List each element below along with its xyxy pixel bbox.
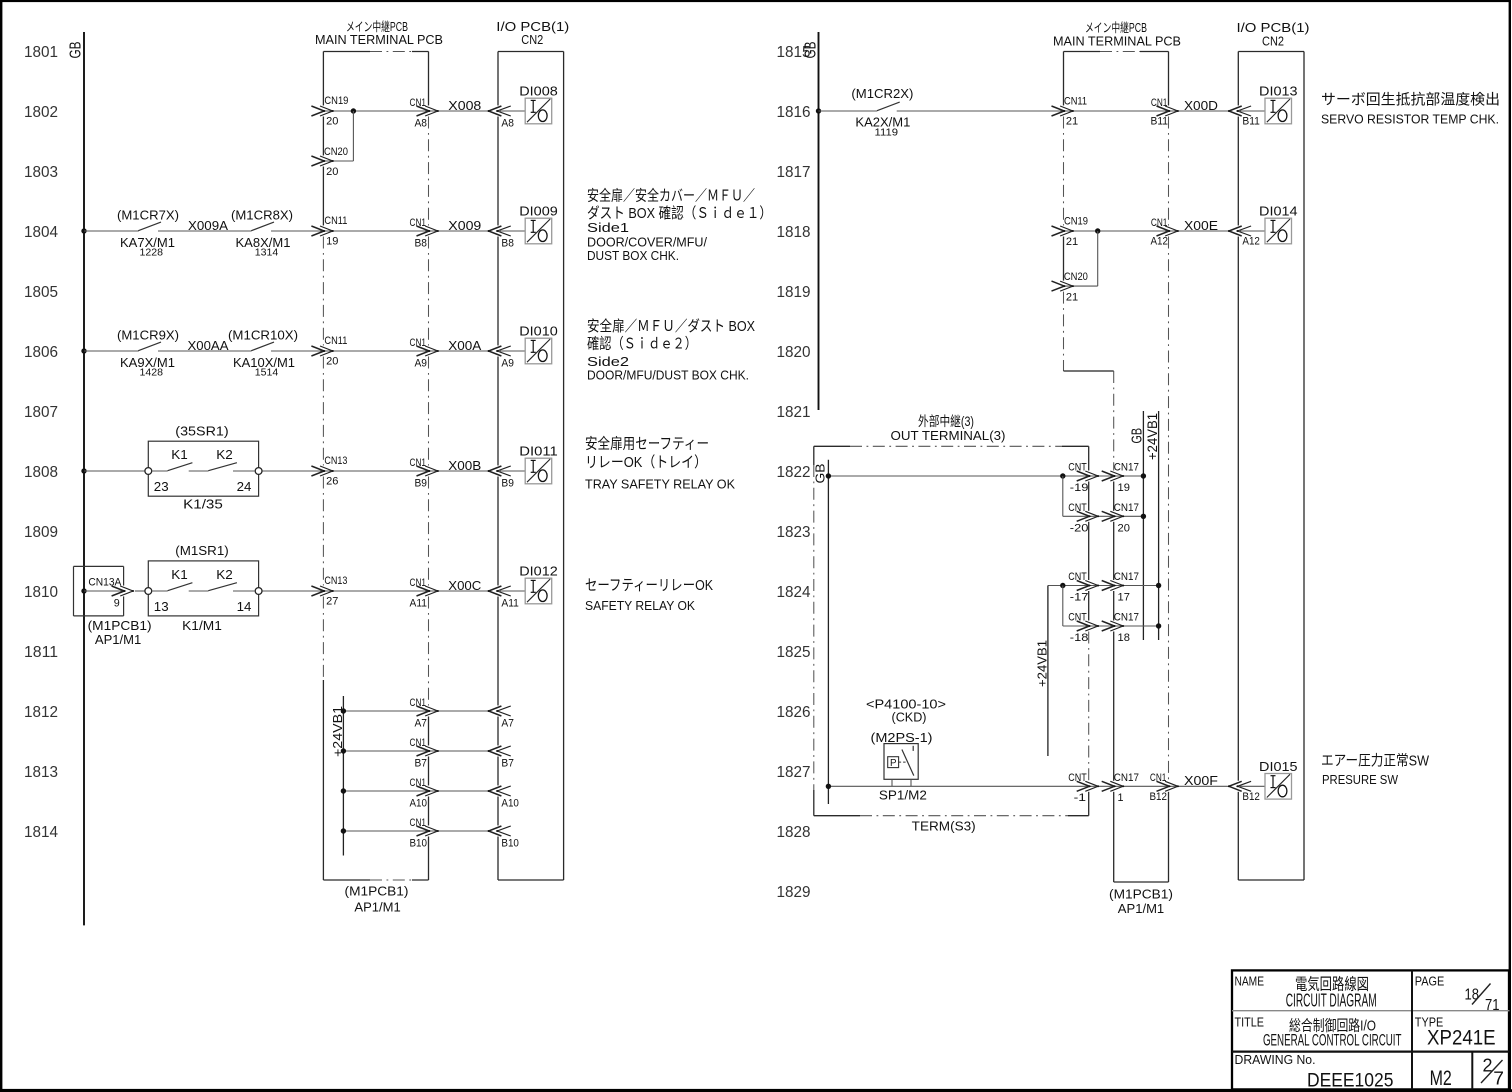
- relay contact KA2X/M1 (M1CR2X): [877, 102, 900, 111]
- wire CNT -20 / CN17 20: [1077, 511, 1090, 521]
- svg-text:18: 18: [1465, 987, 1480, 1004]
- svg-text:DI014: DI014: [1259, 204, 1298, 219]
- svg-text:X009: X009: [448, 218, 481, 233]
- svg-text:リレーOK（トレイ）: リレーOK（トレイ）: [585, 454, 707, 471]
- svg-text:AP1/M1: AP1/M1: [1118, 901, 1164, 916]
- svg-text:K1: K1: [171, 447, 188, 462]
- svg-text:1811: 1811: [24, 644, 58, 661]
- svg-text:1829: 1829: [777, 884, 811, 901]
- svg-text:GB: GB: [1129, 428, 1146, 444]
- wire row 1802 bus X008: [325, 110, 488, 112]
- svg-text:-19: -19: [1070, 482, 1089, 494]
- connector CN19 pin 20: [311, 106, 324, 116]
- I/O point DI008: [525, 98, 552, 124]
- pressure switch SP1/M2 (M2PS-1, P4100-10 CKD): [884, 744, 918, 780]
- svg-text:B10: B10: [501, 837, 519, 849]
- svg-text:CN19: CN19: [1064, 216, 1088, 228]
- I/O PCB(1) CN2 box (left): [497, 52, 499, 106]
- I/O point DI009: [525, 218, 552, 244]
- wire CN20 link (right): [1064, 285, 1097, 287]
- svg-text:CN2: CN2: [521, 32, 543, 47]
- svg-text:B8: B8: [415, 237, 428, 249]
- svg-text:K2: K2: [216, 447, 233, 462]
- svg-text:A9: A9: [415, 357, 428, 369]
- svg-text:B12: B12: [1150, 791, 1168, 803]
- svg-text:GB: GB: [68, 42, 85, 59]
- svg-text:1814: 1814: [24, 824, 58, 841]
- svg-text:CN1: CN1: [1151, 97, 1168, 109]
- svg-text:(M1PCB1): (M1PCB1): [88, 618, 152, 633]
- svg-text:X009A: X009A: [188, 218, 228, 233]
- svg-text:CN19: CN19: [324, 95, 348, 107]
- svg-text:CN17: CN17: [1114, 772, 1139, 784]
- svg-text:GENERAL CONTROL CIRCUIT: GENERAL CONTROL CIRCUIT: [1263, 1030, 1402, 1049]
- svg-text:DI010: DI010: [519, 324, 558, 339]
- svg-text:(M1CR8X): (M1CR8X): [231, 208, 293, 223]
- svg-text:1813: 1813: [24, 764, 58, 781]
- svg-text:-18: -18: [1070, 632, 1089, 644]
- GB bus (right): [818, 32, 820, 410]
- svg-text:1818: 1818: [777, 224, 811, 241]
- svg-text:CN11: CN11: [1064, 96, 1087, 108]
- connector CN1 pin B11 (PCB side): [1157, 106, 1170, 116]
- svg-text:M2: M2: [1430, 1066, 1452, 1090]
- svg-text:CNT: CNT: [1068, 571, 1087, 583]
- svg-text:A11: A11: [501, 597, 519, 609]
- svg-text:9: 9: [114, 598, 120, 610]
- GB collector line (right): [1142, 411, 1144, 640]
- svg-text:DRAWING No.: DRAWING No.: [1235, 1052, 1316, 1067]
- connector CN2 pin B8 (I/O side): [489, 226, 502, 236]
- connector CN2 pin A12 (I/O side): [1229, 226, 1242, 236]
- connector CN2 pin B9 (I/O side): [489, 466, 502, 476]
- svg-text:MAIN TERMINAL PCB: MAIN TERMINAL PCB: [1053, 34, 1181, 49]
- svg-text:1514: 1514: [255, 368, 279, 379]
- svg-text:DI015: DI015: [1259, 759, 1298, 774]
- connector CN1 pin B10 (PCB side): [417, 826, 430, 836]
- svg-text:(M1PCB1): (M1PCB1): [1109, 886, 1173, 901]
- +24VB1 riser (right): [1047, 586, 1049, 757]
- wire CN20 link: [325, 160, 354, 162]
- connector box CN13A pin 9 (M1PCB1 AP1/M1): [74, 565, 124, 567]
- GB feeder line (OUT terminal): [827, 460, 829, 804]
- svg-text:B7: B7: [415, 757, 428, 769]
- svg-text:CN1: CN1: [410, 457, 427, 469]
- svg-text:エアー圧力正常SW: エアー圧力正常SW: [1321, 753, 1429, 770]
- svg-text:1: 1: [1118, 792, 1124, 804]
- wire row 1818 net X00E: [1064, 230, 1227, 232]
- svg-text:1825: 1825: [777, 644, 811, 661]
- svg-text:X008: X008: [448, 98, 481, 113]
- svg-text:GB: GB: [803, 42, 820, 59]
- svg-text:1314: 1314: [255, 248, 279, 259]
- junction node +24VB1/B7: [341, 748, 346, 753]
- I/O point DI012: [525, 578, 552, 604]
- svg-text:DI009: DI009: [519, 204, 558, 219]
- main terminal PCB box (right): [1063, 52, 1065, 106]
- connector CN2 pin A9 (I/O side): [489, 346, 502, 356]
- wire row 1827 net X00F: [828, 785, 1227, 787]
- svg-text:1827: 1827: [777, 764, 811, 781]
- connector CN1 pin B12 (PCB side): [1157, 781, 1170, 791]
- +24VB1 collector line (right): [1158, 411, 1160, 640]
- connector CN20 pin 20: [311, 156, 324, 166]
- title block frame: [1232, 970, 1509, 1089]
- svg-text:安全扉用セーフティー: 安全扉用セーフティー: [585, 435, 709, 453]
- connector CN13 pin 26: [311, 466, 324, 476]
- connector CN1 pin A8 (PCB side): [417, 106, 430, 116]
- svg-text:DEEE1025: DEEE1025: [1307, 1070, 1394, 1092]
- svg-text:B8: B8: [501, 237, 514, 249]
- svg-text:+24VB1: +24VB1: [1034, 640, 1049, 687]
- I/O point DI011: [525, 458, 552, 484]
- svg-text:7: 7: [1493, 1069, 1504, 1089]
- svg-text:1817: 1817: [777, 164, 811, 181]
- connector CN1 pin B7 (PCB side): [417, 746, 430, 756]
- safety relay block M1SR1 (K1 K2 contacts 13-14): [148, 561, 258, 616]
- svg-text:CN2: CN2: [1262, 34, 1284, 49]
- svg-text:CN1: CN1: [410, 777, 427, 789]
- I/O PCB(1) CN2 box (right): [1237, 52, 1239, 106]
- svg-text:A10: A10: [410, 797, 428, 809]
- relay contact KA9X/M1 (M1CR9X): [138, 342, 161, 351]
- svg-text:PAGE: PAGE: [1415, 973, 1445, 988]
- junction node row 1802: [351, 108, 356, 113]
- wire row 1816 net X00D: [816, 108, 821, 113]
- connector CN1 pin B9 (PCB side): [417, 466, 430, 476]
- svg-text:CN1: CN1: [410, 217, 427, 229]
- I/O point DI013: [1265, 98, 1292, 124]
- svg-text:PRESURE SW: PRESURE SW: [1322, 772, 1399, 787]
- svg-text:TRAY SAFETY RELAY OK: TRAY SAFETY RELAY OK: [585, 477, 735, 492]
- svg-text:CN11: CN11: [324, 335, 347, 347]
- connector CN2 pin A10 (I/O side): [489, 786, 502, 796]
- svg-text:19: 19: [326, 236, 338, 248]
- connector CN13 pin 27: [311, 586, 324, 596]
- wire CN1 pin A10: [343, 790, 487, 792]
- svg-text:K1: K1: [171, 567, 188, 582]
- junction node +24VB1/B10: [341, 828, 346, 833]
- svg-text:1802: 1802: [24, 104, 58, 121]
- I/O point DI014: [1265, 218, 1292, 244]
- connector CN2 pin A11 (I/O side): [489, 586, 502, 596]
- svg-text:23: 23: [154, 479, 169, 494]
- junction node +24VB1/A7: [341, 708, 346, 713]
- svg-text:1820: 1820: [777, 344, 811, 361]
- svg-text:1819: 1819: [777, 284, 811, 301]
- connector CN11 pin 19: [311, 226, 324, 236]
- svg-text:CNT: CNT: [1068, 772, 1087, 784]
- junction node row 1818: [1095, 228, 1100, 233]
- svg-text:Side1: Side1: [587, 220, 629, 235]
- wire row 1824 +24VB1 to CN17-17: [1048, 585, 1159, 587]
- svg-text:CN17: CN17: [1114, 502, 1139, 514]
- svg-text:14: 14: [237, 599, 252, 614]
- svg-text:1812: 1812: [24, 704, 58, 721]
- svg-text:1826: 1826: [777, 704, 811, 721]
- svg-text:TERM(S3): TERM(S3): [912, 818, 976, 833]
- connector CN11 pin 21: [1052, 106, 1065, 116]
- svg-text:26: 26: [326, 476, 338, 488]
- svg-text:-17: -17: [1070, 592, 1089, 604]
- svg-text:CN1: CN1: [1151, 217, 1168, 229]
- svg-text:(M2PS-1): (M2PS-1): [871, 730, 933, 745]
- svg-text:1806: 1806: [24, 344, 58, 361]
- svg-text:21: 21: [1066, 291, 1078, 303]
- svg-text:CN20: CN20: [324, 146, 348, 158]
- svg-text:CN20: CN20: [1064, 271, 1088, 283]
- svg-text:CN11: CN11: [324, 215, 347, 227]
- wire CNT -20 branch: [1062, 476, 1064, 516]
- svg-text:CN13: CN13: [324, 575, 347, 587]
- svg-text:AP1/M1: AP1/M1: [354, 900, 400, 915]
- svg-text:(35SR1): (35SR1): [175, 423, 228, 438]
- svg-text:B9: B9: [415, 477, 428, 489]
- svg-text:13: 13: [154, 599, 169, 614]
- connector CNT pin -1: [1077, 781, 1090, 791]
- svg-text:1808: 1808: [24, 464, 58, 481]
- connector CN2 pin A7 (I/O side): [489, 706, 502, 716]
- connector CN1 pin B8 (PCB side): [417, 226, 430, 236]
- svg-text:A8: A8: [415, 117, 428, 129]
- svg-text:20: 20: [326, 166, 338, 178]
- svg-text:CN1: CN1: [410, 337, 427, 349]
- connector CN1 pin A11 (PCB side): [417, 586, 430, 596]
- svg-text:(M1PCB1): (M1PCB1): [345, 884, 409, 899]
- svg-text:CIRCUIT DIAGRAM: CIRCUIT DIAGRAM: [1286, 990, 1377, 1011]
- connector CN1 pin A9 (PCB side): [417, 346, 430, 356]
- svg-text:CN1: CN1: [410, 737, 427, 749]
- svg-text:1809: 1809: [24, 524, 58, 541]
- svg-text:CN13: CN13: [324, 455, 347, 467]
- svg-text:+24VB1: +24VB1: [1145, 413, 1160, 460]
- svg-text:B11: B11: [1151, 115, 1169, 127]
- relay contact KA10X/M1 (M1CR10X): [251, 342, 274, 351]
- svg-text:SP1/M2: SP1/M2: [879, 788, 927, 803]
- wire row 1804 net X009A/X009: [81, 228, 86, 233]
- svg-text:SERVO RESISTOR TEMP CHK.: SERVO RESISTOR TEMP CHK.: [1321, 112, 1499, 127]
- svg-text:B10: B10: [410, 837, 428, 849]
- svg-text:A12: A12: [1151, 235, 1169, 247]
- svg-text:NAME: NAME: [1235, 973, 1265, 988]
- svg-text:CN1: CN1: [1150, 772, 1167, 784]
- svg-text:27: 27: [326, 596, 338, 608]
- svg-text:確認（Ｓｉｄｅ２）: 確認（Ｓｉｄｅ２）: [587, 336, 697, 353]
- connector CN2 pin B10 (I/O side): [489, 826, 502, 836]
- svg-text:A7: A7: [501, 717, 514, 729]
- svg-text:20: 20: [326, 356, 338, 368]
- svg-text:OUT TERMINAL(3): OUT TERMINAL(3): [891, 428, 1006, 443]
- svg-text:19: 19: [1118, 482, 1130, 494]
- GB bus (left): [83, 32, 85, 925]
- relay contact KA7X/M1 (M1CR7X): [138, 222, 161, 231]
- svg-text:X00A: X00A: [448, 338, 481, 353]
- svg-text:K1/M1: K1/M1: [182, 618, 222, 633]
- connector CN2 pin B11 (I/O side): [1229, 106, 1242, 116]
- svg-text:1804: 1804: [24, 224, 58, 241]
- svg-text:(CKD): (CKD): [892, 710, 927, 725]
- connector CN2 pin B7 (I/O side): [489, 746, 502, 756]
- svg-text:1822: 1822: [777, 464, 811, 481]
- svg-text:1228: 1228: [140, 248, 164, 259]
- connector CN1 pin A10 (PCB side): [417, 786, 430, 796]
- svg-text:P: P: [890, 758, 897, 769]
- svg-text:17: 17: [1118, 592, 1130, 604]
- svg-text:X00F: X00F: [1184, 773, 1218, 788]
- svg-text:20: 20: [326, 116, 338, 128]
- svg-text:安全扉／ＭＦＵ／ダスト BOX: 安全扉／ＭＦＵ／ダスト BOX: [587, 317, 755, 335]
- svg-text:CN1: CN1: [410, 577, 427, 589]
- connector CN2 pin A8 (I/O side): [489, 106, 502, 116]
- svg-text:1823: 1823: [777, 524, 811, 541]
- svg-text:MAIN TERMINAL PCB: MAIN TERMINAL PCB: [315, 32, 443, 47]
- junction node +24VB1/A10: [341, 788, 346, 793]
- wire CNT -19 / CN17 19: [1077, 471, 1090, 481]
- connector CN19 pin 21: [1052, 226, 1065, 236]
- svg-text:B7: B7: [501, 757, 514, 769]
- svg-text:1805: 1805: [24, 284, 58, 301]
- svg-text:A7: A7: [415, 717, 428, 729]
- svg-text:B9: B9: [501, 477, 514, 489]
- connector CN11 pin 20: [311, 346, 324, 356]
- wire CNT -18 / CN17 18: [1077, 621, 1090, 631]
- svg-text:21: 21: [1066, 116, 1078, 128]
- svg-text:CN17: CN17: [1114, 462, 1139, 474]
- svg-text:B12: B12: [1242, 791, 1260, 803]
- svg-text:セーフティーリレーOK: セーフティーリレーOK: [585, 577, 713, 594]
- connector CN1 pin A7 (PCB side): [417, 706, 430, 716]
- svg-text:A10: A10: [501, 797, 519, 809]
- svg-text:CNT: CNT: [1068, 612, 1087, 624]
- svg-text:DI008: DI008: [519, 84, 558, 99]
- svg-text:SAFETY RELAY OK: SAFETY RELAY OK: [585, 598, 695, 613]
- svg-text:1824: 1824: [777, 584, 811, 601]
- svg-text:CN1: CN1: [410, 97, 427, 109]
- svg-text:A11: A11: [410, 597, 428, 609]
- svg-text:AP1/M1: AP1/M1: [95, 632, 141, 647]
- svg-text:-1: -1: [1074, 792, 1086, 804]
- svg-text:TITLE: TITLE: [1235, 1015, 1265, 1030]
- svg-text:X00C: X00C: [448, 578, 481, 593]
- svg-text:XP241E: XP241E: [1427, 1027, 1496, 1050]
- svg-text:CN17: CN17: [1114, 571, 1139, 583]
- svg-text:A8: A8: [501, 117, 514, 129]
- svg-text:(M1CR10X): (M1CR10X): [228, 328, 298, 343]
- connector CN2 pin B12 (I/O side): [1229, 781, 1242, 791]
- svg-text:1428: 1428: [140, 368, 164, 379]
- svg-text:(M1CR2X): (M1CR2X): [851, 86, 913, 101]
- svg-text:20: 20: [1118, 522, 1130, 534]
- svg-text:X00D: X00D: [1184, 98, 1218, 113]
- PCB box boundary jog: [1064, 370, 1114, 372]
- svg-text:-20: -20: [1070, 522, 1089, 534]
- svg-text:CN1: CN1: [410, 697, 427, 709]
- svg-text:GB: GB: [812, 464, 827, 484]
- svg-text:1801: 1801: [24, 44, 58, 61]
- svg-text:1803: 1803: [24, 164, 58, 181]
- wire row 1808 net X00B: [81, 468, 86, 473]
- wire CNT -17 / CN17 17: [1077, 581, 1090, 591]
- svg-text:A12: A12: [1242, 235, 1260, 247]
- svg-text:K1/35: K1/35: [183, 496, 223, 511]
- svg-text:1810: 1810: [24, 584, 58, 601]
- svg-text:24: 24: [237, 479, 252, 494]
- svg-text:X00AA: X00AA: [188, 338, 229, 353]
- svg-text:DOOR/MFU/DUST BOX CHK.: DOOR/MFU/DUST BOX CHK.: [587, 368, 749, 383]
- svg-text:A9: A9: [501, 357, 514, 369]
- svg-text:(M1CR7X): (M1CR7X): [117, 208, 179, 223]
- svg-text:1807: 1807: [24, 404, 58, 421]
- wire row 1822 GB to CN17-19: [828, 475, 1143, 477]
- I/O point DI015: [1265, 774, 1292, 800]
- svg-text:71: 71: [1485, 997, 1500, 1014]
- relay contact KA8X/M1 (M1CR8X): [251, 222, 274, 231]
- connector CN17 pin 1: [1102, 781, 1115, 791]
- I/O point DI010: [525, 338, 552, 364]
- svg-text:18: 18: [1118, 632, 1130, 644]
- svg-text:DI012: DI012: [519, 564, 558, 579]
- svg-text:安全扉／安全カバー／ＭＦＵ／: 安全扉／安全カバー／ＭＦＵ／: [587, 187, 755, 205]
- svg-text:1119: 1119: [875, 128, 899, 139]
- svg-text:1821: 1821: [777, 404, 811, 421]
- svg-text:CN13A: CN13A: [88, 577, 122, 589]
- connector CN1 pin A12 (PCB side): [1157, 226, 1170, 236]
- svg-text:CNT: CNT: [1068, 462, 1087, 474]
- wire CNT -18 branch: [1062, 586, 1064, 627]
- svg-text:CN17: CN17: [1114, 612, 1139, 624]
- svg-text:K2: K2: [216, 567, 233, 582]
- svg-text:X00B: X00B: [448, 458, 481, 473]
- safety relay block 35SR1 (K1 K2 contacts 23-24): [148, 441, 258, 496]
- svg-text:DI011: DI011: [519, 444, 558, 459]
- svg-text:(M1SR1): (M1SR1): [175, 543, 228, 558]
- svg-text:CNT: CNT: [1068, 502, 1087, 514]
- svg-text:1816: 1816: [777, 104, 811, 121]
- wire CN1 pin A7: [343, 710, 487, 712]
- wire CN1 pin B10: [343, 830, 487, 832]
- connector CN20 pin 21: [1052, 281, 1065, 291]
- svg-text:サーボ回生抵抗部温度検出: サーボ回生抵抗部温度検出: [1321, 92, 1500, 109]
- svg-text:21: 21: [1066, 236, 1078, 248]
- svg-text:DUST BOX CHK.: DUST BOX CHK.: [587, 248, 679, 263]
- svg-text:(M1CR9X): (M1CR9X): [117, 328, 179, 343]
- +24VB1 riser (left): [342, 696, 344, 856]
- svg-text:1828: 1828: [777, 824, 811, 841]
- wire row 1806 net X00AA/X00A: [81, 348, 86, 353]
- svg-text:CN1: CN1: [410, 817, 427, 829]
- svg-text:外部中継(3): 外部中継(3): [918, 414, 974, 429]
- wire CN1 pin B7: [343, 750, 487, 752]
- wire row 1810 net X00C: [81, 588, 86, 593]
- svg-text:DI013: DI013: [1259, 84, 1298, 99]
- OUT TERMINAL(3) box: [814, 445, 850, 447]
- main terminal PCB box (left): [322, 52, 324, 106]
- svg-text:X00E: X00E: [1184, 218, 1218, 233]
- svg-text:B11: B11: [1242, 115, 1260, 127]
